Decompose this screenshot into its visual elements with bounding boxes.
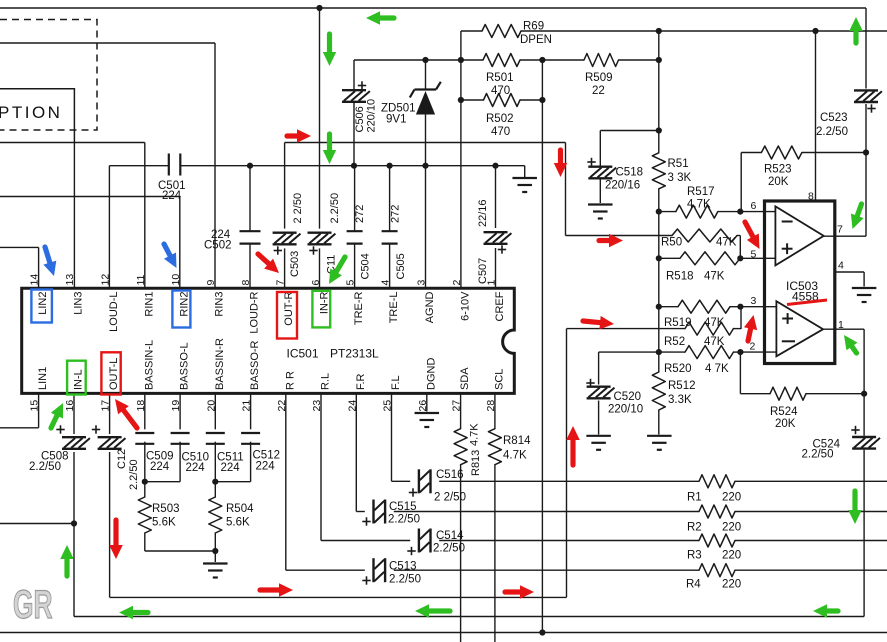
svg-text:C504: C504 <box>360 253 372 279</box>
svg-text:4.7K: 4.7K <box>469 423 481 446</box>
svg-text:R4: R4 <box>686 579 701 591</box>
svg-text:R.L: R.L <box>320 373 332 390</box>
svg-text:22: 22 <box>592 85 605 97</box>
node Vref pin6 row <box>656 209 662 215</box>
svg-text:C505: C505 <box>395 253 407 279</box>
wire pin8 C502 upper lead <box>249 166 251 232</box>
wire pin27 lead <box>460 393 462 428</box>
ground R512 <box>647 435 672 437</box>
svg-text:BASSO-R: BASSO-R <box>249 340 261 390</box>
svg-text:2: 2 <box>451 280 463 286</box>
node IN-L stub junction <box>71 520 77 526</box>
svg-text:C520: C520 <box>614 391 642 403</box>
annotation green arrow to IN-R <box>335 257 345 274</box>
svg-text:C514: C514 <box>436 530 464 542</box>
svg-text:R519: R519 <box>664 317 692 329</box>
wire R52 row <box>567 328 686 330</box>
node R509 right column <box>656 57 662 63</box>
wire C509 bottom to R503 <box>144 442 146 482</box>
wire AGND bus (C501 row) <box>109 165 168 167</box>
wire R512 bottom lead <box>658 410 660 435</box>
svg-text:2 2/50: 2 2/50 <box>292 193 304 224</box>
wire C518 column <box>599 131 601 167</box>
svg-text:47K: 47K <box>716 237 737 249</box>
wire R69 row <box>461 30 482 32</box>
wire pin2 supply column <box>460 31 462 288</box>
capacitor C515 <box>372 500 374 524</box>
wire pin7 lower lead <box>284 248 286 288</box>
svg-text:SDA: SDA <box>459 367 471 390</box>
svg-text:4 7K: 4 7K <box>705 363 729 375</box>
svg-text:R502: R502 <box>486 113 514 125</box>
annotation red arrow to OUT-L box <box>122 409 137 428</box>
wire pin6 signal column from top rail <box>319 8 321 229</box>
annotation green arrow IN-L bus mid <box>427 608 450 613</box>
wire OUT-R feedback top bus <box>285 142 566 144</box>
svg-text:20K: 20K <box>768 176 789 188</box>
svg-text:R814: R814 <box>503 435 531 447</box>
svg-text:12: 12 <box>99 274 111 286</box>
svg-text:BASSIN-R: BASSIN-R <box>214 338 226 390</box>
svg-text:TRE-L: TRE-L <box>388 292 400 324</box>
svg-text:RIN3: RIN3 <box>214 292 226 317</box>
svg-text:R503: R503 <box>152 503 180 515</box>
svg-text:220/10: 220/10 <box>608 404 643 416</box>
svg-text:CREF: CREF <box>494 291 506 321</box>
node Vref pin3 row <box>656 304 662 310</box>
capacitor C506 <box>342 89 366 91</box>
svg-text:2.2/50: 2.2/50 <box>128 459 140 490</box>
svg-text:C12: C12 <box>116 449 128 469</box>
svg-text:16: 16 <box>64 400 76 412</box>
node AGND pin4 <box>387 163 393 169</box>
wire left stub IN-L <box>0 523 74 525</box>
svg-text:18: 18 <box>135 400 147 412</box>
capacitor C501 <box>168 154 170 176</box>
highlight box IN-L (green) <box>67 361 86 395</box>
svg-text:10: 10 <box>170 274 182 286</box>
svg-text:224: 224 <box>162 190 182 202</box>
resistor R502 <box>484 94 521 107</box>
wire R1 line (front right) <box>439 480 699 482</box>
wire pin16 column upper <box>73 393 75 434</box>
svg-text:C502: C502 <box>204 240 232 252</box>
svg-text:OUT-L: OUT-L <box>108 358 120 390</box>
ground C518 <box>588 203 613 205</box>
wire R4 line (rear right) <box>394 569 699 571</box>
svg-text:26: 26 <box>417 400 429 412</box>
annotation green arrow top-rail left <box>378 15 394 20</box>
svg-text:22/16: 22/16 <box>477 199 489 227</box>
annotation green arrow down C524 column <box>852 491 857 512</box>
wire pin13 to option box <box>73 143 75 289</box>
capacitor C523 <box>854 89 878 91</box>
wire op-amp pin8 supply drop <box>815 31 817 201</box>
op-amp A minus input mark <box>782 221 793 223</box>
node R502 right <box>539 97 545 103</box>
wire pin17 column lower / OUT-L bus <box>109 452 111 597</box>
capacitor C516 <box>418 469 420 493</box>
resistor R523 <box>761 146 802 159</box>
annotation red arrow OUT-L bus left <box>260 587 281 592</box>
svg-text:1: 1 <box>486 280 498 286</box>
wire C518 top link <box>600 130 659 132</box>
capacitor C511 <box>206 432 225 434</box>
svg-text:19: 19 <box>170 400 182 412</box>
annotation blue arrow to RIN2 <box>164 244 171 257</box>
svg-text:4.7K: 4.7K <box>503 450 527 462</box>
resistor R517 <box>676 205 718 218</box>
resistor R524 <box>770 387 806 400</box>
svg-text:5.6K: 5.6K <box>226 517 250 529</box>
svg-text:PTION: PTION <box>0 103 62 122</box>
annotation green arrow IN-L bus right <box>825 608 838 613</box>
svg-text:3: 3 <box>416 280 428 286</box>
op-amp A plus input mark <box>782 248 793 250</box>
resistor R503 <box>138 497 151 533</box>
node pin6/R523 junction <box>737 209 743 215</box>
wire pin15 stub <box>38 393 40 427</box>
svg-text:BASSIN-L: BASSIN-L <box>143 340 155 390</box>
node zener top <box>422 57 428 63</box>
svg-text:C518: C518 <box>616 167 644 179</box>
annotation red arrow up x573 <box>570 438 575 465</box>
annotation red arrow down near C12 <box>113 520 118 547</box>
wire pin19 lead <box>179 393 181 429</box>
svg-text:C516: C516 <box>436 469 464 481</box>
annotation green arrow IN-L bus left <box>131 610 148 615</box>
svg-text:14: 14 <box>29 274 41 286</box>
svg-text:2.2/50: 2.2/50 <box>329 193 341 224</box>
wire Vref rail upper <box>658 31 660 153</box>
svg-text:8: 8 <box>240 280 252 286</box>
svg-text:27: 27 <box>451 400 463 412</box>
capacitor C505 <box>382 230 398 232</box>
node pin3 junction <box>737 304 743 310</box>
annotation red arrow R50 row <box>599 238 611 243</box>
svg-text:5.6K: 5.6K <box>152 517 176 529</box>
highlight box LIN2 (blue) <box>31 290 52 323</box>
capacitor C509 <box>135 432 154 434</box>
svg-text:R1: R1 <box>687 492 702 504</box>
node R501 right column <box>539 57 545 63</box>
svg-text:R813: R813 <box>470 450 482 476</box>
svg-text:23: 23 <box>311 400 323 412</box>
annotation red arrow down x565 <box>558 150 563 165</box>
wire pin8 lower lead <box>249 244 251 289</box>
svg-text:2.2/50: 2.2/50 <box>816 126 848 138</box>
resistor R52 <box>685 322 733 335</box>
ground DGND <box>415 412 440 414</box>
svg-text:24: 24 <box>346 400 358 412</box>
node R69-row x658 junction <box>656 28 662 34</box>
IC U IC501 PT2313L body <box>22 288 515 393</box>
svg-text:AGND: AGND <box>424 291 436 323</box>
svg-text:GR: GR <box>13 583 53 628</box>
node pin5 junction <box>737 255 743 261</box>
svg-text:9: 9 <box>205 280 217 286</box>
annotation red arrow to op-amp pin5 <box>745 222 754 238</box>
svg-text:224: 224 <box>150 461 170 473</box>
wire op-amp pin7 output <box>824 235 866 237</box>
svg-text:224: 224 <box>221 462 241 474</box>
capacitor C513 <box>372 558 374 582</box>
capacitor C512 <box>241 432 260 434</box>
svg-text:PT2313L: PT2313L <box>330 347 379 361</box>
svg-text:R501: R501 <box>486 72 514 84</box>
ground AGND <box>512 177 537 179</box>
svg-text:6-10V: 6-10V <box>459 291 471 321</box>
svg-text:47K: 47K <box>704 271 725 283</box>
wire op-amp pin6 row <box>659 211 676 213</box>
wire R524 feedback <box>739 352 741 394</box>
wire pin20 lead <box>214 393 216 429</box>
svg-text:F.L: F.L <box>390 375 402 390</box>
svg-text:C515: C515 <box>389 501 417 513</box>
svg-text:5: 5 <box>751 249 757 261</box>
annotation green arrow to IN-L box <box>51 414 58 428</box>
wire R503 top lead <box>144 482 146 497</box>
wire ground stub R503/R504 <box>214 551 216 562</box>
node R523/C523 junction <box>863 149 869 155</box>
svg-text:2: 2 <box>750 341 756 353</box>
GR watermark <box>13 583 53 628</box>
annotation green arrow down x320 upper <box>327 34 332 54</box>
svg-text:8: 8 <box>808 191 814 203</box>
node pin2 junction <box>737 349 743 355</box>
svg-text:2.2/50: 2.2/50 <box>433 543 465 555</box>
svg-text:2.2/50: 2.2/50 <box>389 574 421 586</box>
svg-text:R520: R520 <box>664 363 692 375</box>
svg-text:C503: C503 <box>289 251 301 277</box>
wire C524 upper lead <box>863 394 865 436</box>
svg-text:3.3K: 3.3K <box>668 394 692 406</box>
svg-text:11: 11 <box>135 274 147 285</box>
wire op-amp pin2 row <box>599 351 659 353</box>
wire long column x542 to bottom rail <box>541 60 543 633</box>
resistor R1 <box>699 475 735 488</box>
wire C523 lower column <box>865 104 867 236</box>
ground R503/R504 <box>203 562 228 564</box>
node R503/R504 ground junction <box>212 548 218 554</box>
resistor R814 <box>488 429 501 465</box>
wire pin17 column upper <box>109 393 111 434</box>
node Vref pin2 row <box>656 349 662 355</box>
svg-text:220: 220 <box>722 492 741 504</box>
svg-text:DPEN: DPEN <box>520 34 552 46</box>
wire pin23 drop to C514 <box>320 393 322 540</box>
node R69-row pin8 junction <box>812 28 818 34</box>
resistor R4 <box>699 564 735 577</box>
resistor R501 <box>483 54 520 67</box>
svg-text:LIN2: LIN2 <box>37 292 49 315</box>
op-amp B (pins 3,2,1) triangle <box>776 301 823 356</box>
resistor R512 <box>652 372 665 410</box>
wire left stub to pin9 net <box>0 42 215 44</box>
red pen mark under 4558 <box>787 300 827 305</box>
node AGND zener/pin3 <box>422 163 428 169</box>
resistor R2 <box>699 505 735 518</box>
wire op-amp pin5 row <box>659 257 680 259</box>
svg-text:28: 28 <box>485 400 497 412</box>
svg-text:R3: R3 <box>687 550 702 562</box>
capacitor C520 <box>587 386 611 388</box>
annotation blue arrow to LIN2 <box>45 247 50 265</box>
svg-text:LIN3: LIN3 <box>73 292 85 315</box>
capacitor C507 <box>484 231 508 233</box>
capacitor C514 <box>418 529 420 553</box>
svg-text:IN-R: IN-R <box>319 291 331 314</box>
svg-text:220: 220 <box>722 522 741 534</box>
node C518/R51 junction <box>656 127 662 133</box>
svg-text:R2: R2 <box>687 522 702 534</box>
capacitor C508 <box>62 436 86 438</box>
wire C512 bottom corner <box>250 442 252 482</box>
wire pin26 DGND stub <box>426 393 428 411</box>
ground op-amp pin4 <box>852 287 877 289</box>
node AGND pin8 <box>247 163 253 169</box>
wire op-amp pin1 output <box>823 328 864 330</box>
wire top supply rail <box>0 7 866 9</box>
node C511/R504 junction <box>212 479 218 485</box>
annotation red arrow OUT-L bus right <box>505 589 522 594</box>
svg-text:IN-L: IN-L <box>73 369 85 390</box>
wire pin10 lead <box>179 197 181 289</box>
svg-text:6: 6 <box>310 280 322 286</box>
highlight box OUT-L (red) <box>101 352 120 394</box>
resistor R519 <box>678 300 730 313</box>
svg-text:SCL: SCL <box>493 369 505 390</box>
highlight box RIN2 (blue) <box>172 291 190 328</box>
wire R504 leads <box>214 482 216 497</box>
wire left stub LIN2 feed <box>0 246 39 248</box>
capacitor C504 <box>347 230 363 232</box>
node AGND C506/pin5 <box>351 163 357 169</box>
svg-text:4: 4 <box>838 260 844 272</box>
svg-text:2 2/50: 2 2/50 <box>434 492 466 504</box>
svg-text:R52: R52 <box>664 336 685 348</box>
svg-text:220/16: 220/16 <box>605 180 640 192</box>
svg-text:R512: R512 <box>668 380 696 392</box>
wire pin22 drop to C513 <box>285 393 287 570</box>
wire C520 drop <box>598 352 600 384</box>
svg-text:DGND: DGND <box>425 358 437 390</box>
svg-text:220/10: 220/10 <box>366 99 378 133</box>
annotation green arrow down x320 lower <box>327 134 332 152</box>
annotation red arrow OUT-R bus <box>287 133 299 138</box>
wire pin18 lead <box>144 393 146 429</box>
node R524/C524 junction <box>861 391 867 397</box>
svg-text:25: 25 <box>382 400 394 412</box>
wire R3 line <box>439 540 699 542</box>
wire pin12 lead <box>108 166 110 289</box>
svg-text:2.2/50: 2.2/50 <box>29 461 61 473</box>
node R501 left / pin2 column <box>458 57 464 63</box>
wire R502 row <box>461 99 484 101</box>
wire C506 column <box>353 60 355 89</box>
svg-text:IC501: IC501 <box>287 347 319 361</box>
resistor R51 <box>652 153 665 189</box>
annotation red arrow R52 row <box>583 321 602 323</box>
wire pin24 drop to C515 <box>355 393 357 511</box>
wire op-amp pin3 row <box>659 306 678 308</box>
svg-text:R50: R50 <box>661 237 682 249</box>
svg-text:6: 6 <box>751 200 757 212</box>
wire left stub RIN2 feed <box>0 196 180 198</box>
svg-text:7: 7 <box>275 280 287 286</box>
svg-text:272: 272 <box>390 205 402 223</box>
wire C511 bottom to R504 <box>214 442 216 482</box>
wire OUT-R drop to R50 <box>565 143 567 236</box>
wire OUT-L riser <box>566 329 568 598</box>
capacitor C524 <box>852 436 876 438</box>
wire C510 bottom corner <box>179 442 181 482</box>
wire pin6 lower lead <box>319 248 321 288</box>
wire R503 bottom corner <box>144 533 146 551</box>
resistor R813 <box>454 429 467 465</box>
capacitor C11 <box>308 231 332 233</box>
capacitor C510 <box>171 432 190 434</box>
wire Vref rail mid <box>658 189 660 372</box>
svg-text:4.7K: 4.7K <box>687 199 711 211</box>
capacitor C503 <box>273 231 297 233</box>
zener diode ZD501 <box>415 88 437 90</box>
svg-text:RIN2: RIN2 <box>178 292 190 317</box>
svg-text:R524: R524 <box>770 406 798 418</box>
svg-text:OUT-R: OUT-R <box>283 291 295 325</box>
wire R2 line <box>394 511 699 513</box>
svg-text:17: 17 <box>100 400 112 412</box>
node x542 bottom-rail junction <box>539 629 545 635</box>
svg-text:R523: R523 <box>764 164 792 176</box>
annotation green arrow up x67 <box>64 557 69 576</box>
node R502 left <box>458 97 464 103</box>
highlight box OUT-R (red) <box>277 292 297 339</box>
svg-text:470: 470 <box>491 126 510 138</box>
svg-text:C513: C513 <box>389 561 417 573</box>
wire pin28 lead <box>494 393 496 428</box>
highlight box IN-R (green) <box>312 291 330 328</box>
wire C524 lower column to IN-L bus <box>863 450 865 617</box>
OPTION label box <box>0 89 74 143</box>
wire AGND ground stub <box>524 166 526 177</box>
svg-text:22: 22 <box>276 400 288 412</box>
svg-text:272: 272 <box>354 205 366 223</box>
svg-text:470: 470 <box>491 85 510 97</box>
svg-text:15: 15 <box>29 400 41 412</box>
svg-text:5: 5 <box>345 280 357 286</box>
svg-text:20: 20 <box>205 400 217 412</box>
svg-text:R517: R517 <box>687 186 715 198</box>
svg-text:LIN1: LIN1 <box>37 367 49 390</box>
annotation green arrow to op-amp pin7 <box>857 204 862 218</box>
resistor R3 <box>699 534 735 547</box>
svg-text:21: 21 <box>241 400 253 412</box>
annotation red arrow to op-amp pin3 <box>748 327 751 341</box>
svg-text:220: 220 <box>722 579 741 591</box>
svg-text:R51: R51 <box>668 158 689 170</box>
svg-text:2.2/50: 2.2/50 <box>388 514 420 526</box>
wire option-box bottom bus to pin11 <box>74 142 144 144</box>
wire +V row (R501 row) <box>354 59 426 61</box>
wire pin16 column lower / IN-L bus <box>73 452 75 617</box>
svg-text:4: 4 <box>380 280 392 286</box>
resistor R518 <box>680 252 740 265</box>
capacitor C12 <box>98 436 122 438</box>
IC U IC503 4558 body <box>765 201 835 364</box>
node AGND pin1 <box>492 163 498 169</box>
wire pin25 drop to C516 <box>391 393 393 481</box>
